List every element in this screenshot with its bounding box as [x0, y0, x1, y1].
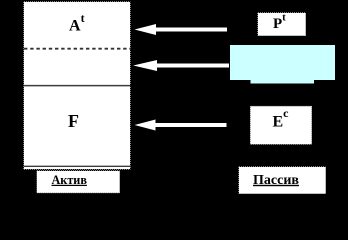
box Passiv	[239, 167, 327, 195]
cyan box (refinancing)	[230, 45, 336, 81]
solid divider line	[24, 85, 131, 87]
box P^t	[258, 13, 307, 37]
svg-text:Пассив: Пассив	[253, 173, 299, 188]
box Aktiv	[37, 171, 121, 194]
bottom border line of F box	[24, 165, 131, 167]
svg-text:F: F	[68, 111, 79, 131]
box E^c	[250, 106, 312, 145]
svg-text:Актив: Актив	[52, 173, 88, 187]
balance rectangle (assets side)	[24, 2, 131, 170]
dashed divider line	[24, 48, 131, 50]
cyan notch strip	[251, 80, 315, 84]
arrow middle	[133, 60, 229, 71]
arrow bottom	[135, 120, 227, 131]
arrow top	[135, 24, 228, 35]
